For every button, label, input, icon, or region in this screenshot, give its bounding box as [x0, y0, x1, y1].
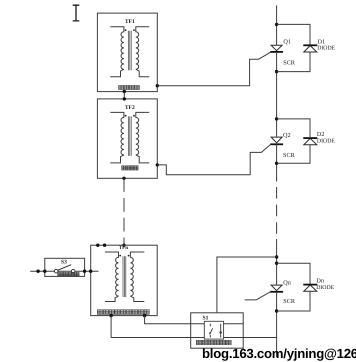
transformer TF1 core	[128, 31, 131, 71]
wire main bus solid to Qn	[276, 239, 278, 285]
label text 触发脉冲 (trigger pulse) TF1 (Chinese)	[119, 86, 140, 90]
wire Qn gate stub	[245, 292, 271, 300]
trigger-pulse block box containing TF2	[97, 99, 157, 178]
svg-text:blog.163.com/yjning@126: blog.163.com/yjning@126	[202, 346, 356, 361]
SCR Q2 thyristor symbol	[270, 137, 283, 144]
diode D1 symbol (anode below, cathode bar above)	[303, 45, 317, 52]
wire dashed link TF2 to TFn	[123, 178, 125, 192]
node Q1/D1 cathode junction	[275, 70, 278, 73]
signal acquisition circuit box S1	[191, 313, 244, 348]
node on TFn top edge left 1	[96, 244, 99, 247]
wire D1 branch loop	[277, 24, 310, 71]
svg-text:Q1: Q1	[283, 39, 291, 46]
wire Dn branch loop	[277, 263, 310, 311]
trigger-pulse block box containing TF1	[97, 13, 157, 92]
svg-text:DIODE: DIODE	[316, 285, 334, 291]
wire link TF1 box to TF2 box	[123, 92, 125, 99]
node on S3 right edge	[83, 270, 86, 273]
transformer TFn polarity dots	[119, 255, 121, 257]
svg-text:DIODE: DIODE	[317, 138, 335, 144]
switch S3 contact symbol	[54, 265, 75, 273]
node TF2 output on box right edge	[156, 163, 159, 166]
svg-text:Q2: Q2	[283, 132, 291, 139]
label text 晶闸管逻辑驱动电路 (thyristor logic drive circuit) (Chinese)	[97, 310, 149, 315]
wire TFn right output to S1 upper input	[145, 316, 191, 324]
S1 inner sampling element box	[204, 321, 223, 339]
svg-text:SCR: SCR	[283, 59, 296, 66]
node Q2/D2 cathode junction	[275, 162, 278, 165]
node TF1 output on box right edge	[156, 84, 159, 87]
transformer TF2 core	[128, 116, 131, 155]
node on S3 left edge	[43, 270, 46, 273]
node on TF2 box bottom edge	[122, 177, 125, 180]
transformer TF2 polarity dots	[125, 115, 127, 117]
transformer TF2 secondary winding	[136, 112, 149, 162]
svg-text:SCR: SCR	[283, 298, 296, 305]
thyristor logic drive circuit box containing TFn	[91, 245, 158, 315]
S1 inner right arrow element	[220, 324, 222, 338]
node junction to S1 sampling wire	[275, 255, 278, 258]
node Qn/Dn anode junction	[275, 262, 278, 265]
transformer TF1 secondary winding	[136, 27, 149, 77]
transformer TF1 primary winding	[110, 27, 124, 77]
wire trigger command input line through S3	[30, 270, 98, 272]
wire S1 top feedback to main bus node	[217, 257, 277, 313]
text cursor I-beam	[73, 5, 80, 21]
svg-text:DIODE: DIODE	[317, 45, 335, 51]
node on TFn bottom edge (left output)	[109, 314, 112, 317]
node at Q1/D1 anode junction	[275, 23, 278, 26]
diode Dn symbol (anode below, cathode bar above)	[303, 285, 317, 292]
wire dashed continuation of main bus	[276, 187, 278, 240]
node Qn/Dn cathode junction	[275, 309, 278, 312]
wire S1 output to main bus	[243, 337, 276, 339]
wire main bus Q1 cathode to Q2 anode	[276, 52, 278, 137]
transformer TFn core	[123, 256, 126, 297]
wire main bus Qn cathode to bottom	[276, 292, 278, 357]
svg-text:Dn: Dn	[316, 277, 324, 284]
svg-text:D2: D2	[317, 131, 325, 138]
node on TFn top edge left 2	[103, 244, 106, 247]
switch S3 box	[45, 258, 85, 276]
wire D2 branch loop	[277, 119, 310, 163]
svg-text:Qn: Qn	[283, 280, 291, 287]
wire main bus Q2 cathode down to dashed break	[276, 144, 278, 181]
transformer TF2 primary winding	[110, 112, 124, 162]
svg-text:D1: D1	[318, 38, 326, 45]
svg-text:SCR: SCR	[283, 152, 296, 159]
svg-text:S1: S1	[203, 315, 209, 321]
transformer TFn secondary winding	[130, 252, 144, 302]
node on TF1 box bottom edge	[123, 90, 126, 93]
transformer TFn primary winding	[105, 252, 119, 302]
wire TFn left output to S1 lower input	[111, 316, 191, 338]
label text 触发脉冲 (trigger pulse) TF2 (Chinese)	[122, 166, 138, 170]
SCR Qn thyristor symbol	[270, 285, 283, 292]
label text 信号采集电路 (signal acquisition circuit) (Chinese)	[196, 340, 231, 344]
node on TF2 box top edge	[123, 97, 126, 100]
node Q2/D2 anode junction	[275, 117, 278, 120]
label text 触发指令 (trigger command) (Chinese)	[58, 272, 79, 276]
wire TF1 output to Q1 gate	[157, 52, 271, 86]
diode D2 symbol (anode below, cathode bar above)	[303, 138, 317, 145]
S1 inner left sampling contact	[210, 324, 213, 338]
wire TF2 output to Q2 gate	[157, 144, 271, 175]
node on TFn bottom edge (right output)	[143, 314, 146, 317]
transformer TF1 polarity dots	[125, 29, 127, 31]
S1 internal lead wires	[191, 324, 244, 338]
wire main AC bus vertical segment top	[276, 5, 278, 45]
svg-text:TF1: TF1	[125, 19, 135, 25]
svg-text:TF2: TF2	[125, 105, 135, 111]
svg-text:S3: S3	[61, 259, 67, 265]
svg-text:TFn: TFn	[119, 245, 128, 251]
node on TFn box top edge	[122, 244, 125, 247]
SCR Q1 thyristor symbol	[270, 45, 283, 52]
node on input wire left	[36, 270, 39, 273]
node on TFn left edge	[89, 270, 92, 273]
